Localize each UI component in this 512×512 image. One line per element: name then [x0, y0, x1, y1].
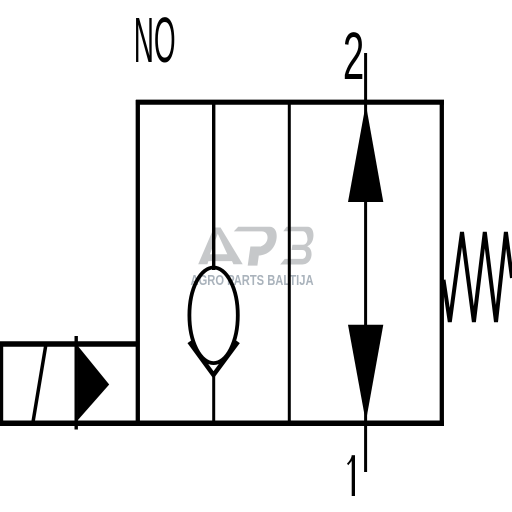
svg-text:AGRO PARTS BALTIJA: AGRO PARTS BALTIJA — [191, 271, 314, 288]
svg-text:2: 2 — [343, 19, 364, 94]
svg-text:NO: NO — [134, 5, 176, 76]
